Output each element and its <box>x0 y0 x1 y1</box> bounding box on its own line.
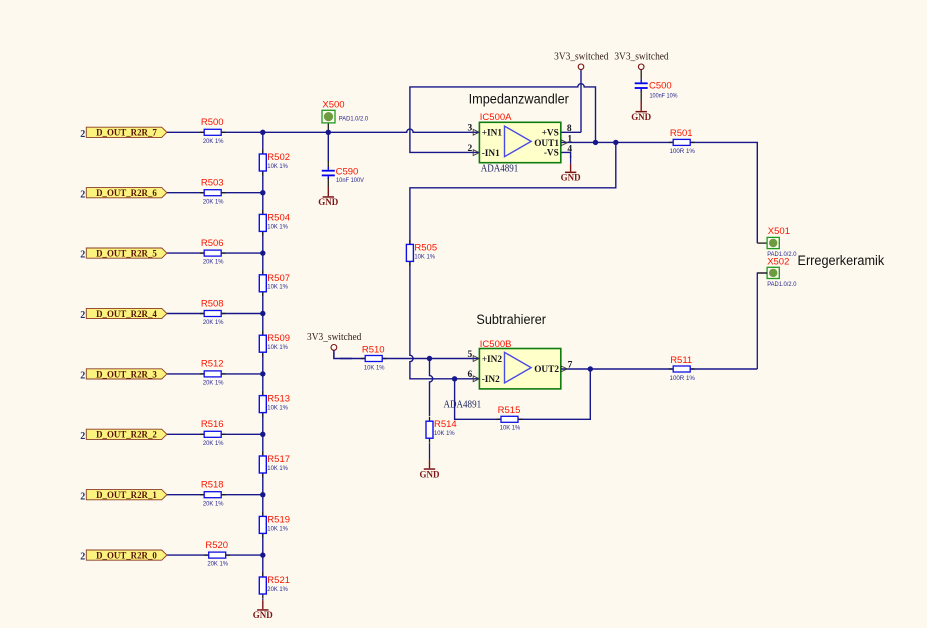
svg-text:3: 3 <box>467 124 472 134</box>
svg-text:R513: R513 <box>267 394 290 405</box>
svg-text:R511: R511 <box>670 355 692 366</box>
svg-text:10K 1%: 10K 1% <box>267 525 288 532</box>
svg-text:20K 1%: 20K 1% <box>203 380 224 387</box>
svg-text:X502: X502 <box>767 256 789 267</box>
svg-text:R500: R500 <box>201 117 224 128</box>
svg-text:10K 1%: 10K 1% <box>364 364 385 371</box>
svg-text:7: 7 <box>568 361 573 371</box>
svg-text:GND: GND <box>631 113 651 123</box>
svg-text:D_OUT_R2R_4: D_OUT_R2R_4 <box>96 309 157 320</box>
svg-text:OUT2: OUT2 <box>534 365 559 375</box>
svg-text:R501: R501 <box>670 128 693 139</box>
svg-text:2: 2 <box>80 491 85 502</box>
svg-text:10K 1%: 10K 1% <box>267 284 288 291</box>
svg-text:R506: R506 <box>201 238 224 249</box>
svg-text:10K 1%: 10K 1% <box>500 425 521 432</box>
svg-text:+IN1: +IN1 <box>482 129 503 139</box>
svg-text:20K 1%: 20K 1% <box>203 500 224 507</box>
svg-text:2: 2 <box>80 310 85 321</box>
svg-text:PAD1.0/2.0: PAD1.0/2.0 <box>339 116 368 123</box>
svg-text:X500: X500 <box>322 100 344 111</box>
svg-text:R503: R503 <box>201 178 224 189</box>
svg-text:10K 1%: 10K 1% <box>267 465 288 472</box>
svg-text:2: 2 <box>80 371 85 382</box>
svg-text:10K 1%: 10K 1% <box>434 430 455 437</box>
svg-text:10K 1%: 10K 1% <box>267 163 288 170</box>
svg-text:GND: GND <box>561 174 581 184</box>
svg-text:8: 8 <box>567 124 572 134</box>
svg-text:4: 4 <box>567 144 572 154</box>
svg-text:-IN2: -IN2 <box>482 375 500 385</box>
svg-text:ADA4891: ADA4891 <box>444 399 482 410</box>
svg-text:2: 2 <box>80 189 85 200</box>
svg-text:R521: R521 <box>267 575 290 586</box>
svg-text:ADA4891: ADA4891 <box>481 164 519 175</box>
svg-text:GND: GND <box>420 470 440 480</box>
svg-text:1: 1 <box>567 134 572 144</box>
svg-text:D_OUT_R2R_7: D_OUT_R2R_7 <box>96 128 157 139</box>
svg-text:6: 6 <box>467 370 472 380</box>
svg-text:100nF 10%: 100nF 10% <box>650 93 678 100</box>
svg-text:R516: R516 <box>201 419 224 430</box>
svg-text:R508: R508 <box>201 298 224 309</box>
svg-text:100R 1%: 100R 1% <box>670 375 695 382</box>
svg-text:R518: R518 <box>201 480 224 491</box>
svg-text:OUT1: OUT1 <box>534 139 559 149</box>
svg-text:IC500B: IC500B <box>480 339 512 350</box>
svg-text:10nF 100V: 10nF 100V <box>336 177 364 184</box>
svg-text:GND: GND <box>253 611 273 621</box>
svg-text:X501: X501 <box>768 226 790 237</box>
svg-text:GND: GND <box>318 198 338 208</box>
svg-text:3V3_switched: 3V3_switched <box>614 52 668 63</box>
svg-text:R517: R517 <box>267 454 290 465</box>
svg-text:+IN2: +IN2 <box>482 355 503 365</box>
svg-text:5: 5 <box>467 350 472 360</box>
svg-text:R510: R510 <box>362 345 385 356</box>
svg-text:10K 1%: 10K 1% <box>267 223 288 230</box>
svg-text:R512: R512 <box>201 359 224 370</box>
svg-text:D_OUT_R2R_6: D_OUT_R2R_6 <box>96 188 157 199</box>
svg-text:2: 2 <box>80 552 85 563</box>
svg-text:R509: R509 <box>267 333 290 344</box>
svg-text:-IN1: -IN1 <box>482 149 500 159</box>
svg-text:3V3_switched: 3V3_switched <box>307 332 361 343</box>
svg-text:10K 1%: 10K 1% <box>267 344 288 351</box>
svg-text:10K 1%: 10K 1% <box>267 405 288 412</box>
svg-text:R505: R505 <box>414 242 437 253</box>
svg-text:D_OUT_R2R_3: D_OUT_R2R_3 <box>96 369 157 380</box>
svg-text:Subtrahierer: Subtrahierer <box>476 312 546 328</box>
svg-text:100R 1%: 100R 1% <box>670 148 695 155</box>
svg-text:20K 1%: 20K 1% <box>207 561 228 568</box>
svg-text:-VS: -VS <box>544 149 559 159</box>
svg-text:2: 2 <box>80 129 85 140</box>
svg-text:10K 1%: 10K 1% <box>414 253 435 260</box>
svg-text:R504: R504 <box>267 212 290 223</box>
svg-text:Impedanzwandler: Impedanzwandler <box>469 91 570 107</box>
svg-text:C500: C500 <box>649 81 672 92</box>
svg-text:R514: R514 <box>434 419 457 430</box>
svg-text:2: 2 <box>80 431 85 442</box>
svg-text:2: 2 <box>467 144 472 154</box>
svg-text:20K 1%: 20K 1% <box>267 586 288 593</box>
svg-text:20K 1%: 20K 1% <box>203 440 224 447</box>
svg-text:20K 1%: 20K 1% <box>203 319 224 326</box>
svg-text:+VS: +VS <box>542 129 559 139</box>
svg-text:20K 1%: 20K 1% <box>203 259 224 266</box>
svg-text:D_OUT_R2R_5: D_OUT_R2R_5 <box>96 249 157 260</box>
svg-text:D_OUT_R2R_2: D_OUT_R2R_2 <box>96 430 157 441</box>
svg-text:R519: R519 <box>267 514 290 525</box>
svg-text:D_OUT_R2R_1: D_OUT_R2R_1 <box>96 490 157 501</box>
svg-text:R502: R502 <box>267 152 290 163</box>
svg-text:R507: R507 <box>267 273 290 284</box>
svg-text:R520: R520 <box>205 540 228 551</box>
svg-text:20K 1%: 20K 1% <box>203 198 224 205</box>
svg-text:R515: R515 <box>498 405 521 416</box>
svg-text:C590: C590 <box>336 166 359 177</box>
svg-text:D_OUT_R2R_0: D_OUT_R2R_0 <box>96 551 157 562</box>
svg-text:Erregerkeramik: Erregerkeramik <box>798 253 885 269</box>
svg-text:IC500A: IC500A <box>480 112 512 123</box>
svg-text:20K 1%: 20K 1% <box>203 138 224 145</box>
svg-text:2: 2 <box>80 250 85 261</box>
svg-text:3V3_switched: 3V3_switched <box>554 52 608 63</box>
svg-text:PAD1.0/2.0: PAD1.0/2.0 <box>767 281 796 288</box>
